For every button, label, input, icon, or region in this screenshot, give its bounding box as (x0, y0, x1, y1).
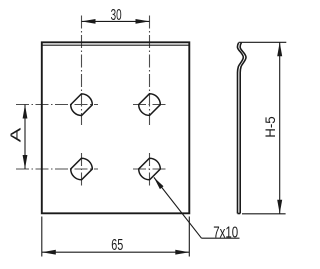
side view profile left outline with joggle (237, 43, 243, 214)
slot hole bottom-right 7x10 (136, 156, 162, 182)
svg-text:65: 65 (111, 237, 123, 254)
centerline vertical, bottom-right hole (149, 153, 151, 186)
plate outline front view (42, 42, 190, 213)
dimension 65 extension line left (41, 217, 43, 257)
centerline vertical, hole column left (extension for dim 30) (81, 16, 83, 126)
leader line 7x10 (154, 177, 202, 238)
plate bend line (second top line) (42, 44, 190, 46)
centerline horizontal, top hole row (extension for dim A) (16, 104, 98, 106)
dimension 30 arrow left (82, 19, 96, 24)
centerline vertical, bottom-left hole (81, 153, 83, 186)
dimension 65 line (42, 251, 190, 253)
slot hole top-left 7x10 (68, 92, 94, 118)
dimension 65 arrow right (175, 250, 189, 255)
centerline horizontal, bottom-right hole (133, 168, 167, 170)
dimension H-5 arrow bottom (277, 200, 282, 214)
dimension H-5 extension line bottom (242, 213, 286, 215)
slot hole bottom-left 7x10 (68, 156, 94, 182)
dimension 65 extension line right (188, 217, 190, 257)
centerline horizontal, top-right hole (133, 104, 167, 106)
svg-text:A: A (8, 127, 24, 142)
dimension 30 arrow right (136, 19, 150, 24)
dimension A arrow top (23, 105, 28, 119)
centerline horizontal, bottom hole row (extension for dim A) (16, 168, 98, 170)
dimension A line (24, 105, 26, 170)
side view profile right outline with joggle (240, 43, 246, 214)
slot hole top-right 7x10 (136, 92, 162, 118)
leader underline 7x10 (202, 237, 240, 239)
dimension 30 line (82, 20, 150, 22)
dimension A arrow bottom (23, 155, 28, 169)
centerline vertical, hole column right (extension for dim 30) (149, 16, 151, 126)
svg-text:7x10: 7x10 (213, 225, 238, 242)
dimension H-5 arrow top (277, 42, 282, 56)
svg-text:H-5: H-5 (263, 116, 278, 138)
leader arrow 7x10 (154, 177, 164, 189)
dimension H-5 extension line top (239, 41, 287, 43)
svg-text:30: 30 (111, 7, 122, 24)
dimension H-5 line (279, 42, 281, 214)
side view profile bottom edge (238, 213, 241, 215)
dimension 65 arrow left (42, 250, 56, 255)
